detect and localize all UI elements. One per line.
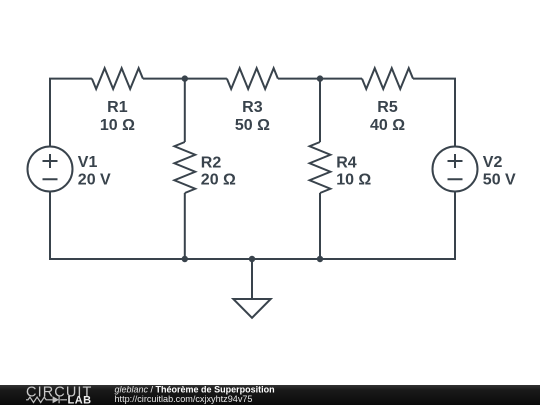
- wire bottom rail node A to ground node: [185, 258, 252, 260]
- svg-text:20 Ω: 20 Ω: [201, 172, 236, 189]
- svg-text:http://circuitlab.com/cxjxyhtz: http://circuitlab.com/cxjxyhtz94v75: [115, 394, 253, 404]
- junction dot bottom right: [317, 256, 323, 262]
- logo resistor squiggle and diode: [26, 396, 67, 403]
- junction dot bottom left: [182, 256, 188, 262]
- resistor R1: [92, 68, 143, 89]
- svg-text:R3: R3: [242, 99, 263, 116]
- wire V1 bottom to bottom rail: [50, 192, 185, 260]
- voltage source V1: [28, 147, 73, 192]
- ground: [233, 259, 270, 318]
- resistor R2: [174, 142, 195, 193]
- svg-text:R2: R2: [201, 155, 222, 172]
- wire node A down to R2: [184, 79, 186, 142]
- wire bottom rail node B to V2: [320, 192, 455, 260]
- junction dot bottom ground: [249, 256, 255, 262]
- svg-text:R1: R1: [107, 99, 128, 116]
- svg-text:40 Ω: 40 Ω: [370, 117, 405, 134]
- svg-text:V2: V2: [483, 154, 503, 171]
- svg-text:10 Ω: 10 Ω: [336, 172, 371, 189]
- resistor R3: [227, 68, 278, 89]
- svg-text:50 Ω: 50 Ω: [235, 117, 270, 134]
- svg-text:R5: R5: [377, 99, 398, 116]
- resistor R4: [310, 142, 331, 193]
- wire R1 to node A: [143, 78, 185, 80]
- wire node A to R3: [185, 78, 227, 80]
- svg-text:LAB: LAB: [68, 394, 92, 405]
- wire R2 bottom to bottom rail: [184, 193, 186, 259]
- svg-text:20 V: 20 V: [78, 171, 111, 188]
- logo diode triangle: [53, 396, 59, 403]
- footer bar: [0, 385, 540, 405]
- wire R3 to node B: [278, 78, 320, 80]
- wire top-left: V1 top to R1: [50, 79, 92, 147]
- svg-text:gleblanc / Théorème de Superpo: gleblanc / Théorème de Superposition: [115, 385, 275, 395]
- wire R4 bottom to bottom rail: [319, 193, 321, 259]
- svg-text:V1: V1: [78, 154, 98, 171]
- svg-text:50 V: 50 V: [483, 171, 516, 188]
- svg-text:R4: R4: [336, 155, 357, 172]
- wire R5 to top-right corner down to V2: [413, 79, 455, 147]
- wire ground node to node B bottom: [252, 258, 320, 260]
- wire node B to R5: [320, 78, 362, 80]
- svg-text:10 Ω: 10 Ω: [100, 117, 135, 134]
- voltage source V2: [433, 147, 478, 192]
- wire node B down to R4: [319, 79, 321, 142]
- resistor R5: [362, 68, 413, 89]
- node A junction dot top: [182, 75, 188, 81]
- node B junction dot top: [317, 75, 323, 81]
